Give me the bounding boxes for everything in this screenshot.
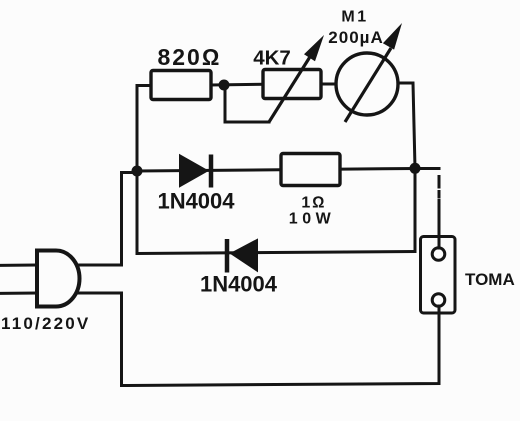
svg-text:M1: M1: [341, 9, 368, 26]
svg-text:1Ω: 1Ω: [301, 194, 326, 211]
svg-text:TOMA: TOMA: [465, 270, 515, 289]
svg-text:10W: 10W: [289, 211, 335, 228]
svg-text:1N4004: 1N4004: [157, 189, 235, 214]
svg-text:200µA: 200µA: [328, 28, 383, 47]
svg-text:820Ω: 820Ω: [157, 44, 221, 70]
svg-text:1N4004: 1N4004: [200, 272, 278, 297]
svg-text:110/220V: 110/220V: [1, 314, 90, 333]
svg-text:4K7: 4K7: [253, 47, 291, 70]
